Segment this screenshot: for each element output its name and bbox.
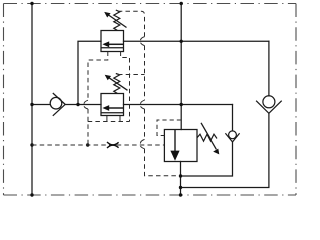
wire: drop into check valve C3 (232, 105, 234, 131)
pilot line: vertical run between hops (144, 46, 146, 101)
wire: tank link to check valve C2 branch (181, 113, 269, 187)
hop: pilot line crosses orifice pilot line (140, 139, 144, 143)
V3 internal flow arrow (down) (170, 130, 179, 161)
wire: left supply vertical line P (31, 4, 33, 196)
V3 pilot chamber (dashed box top-left) (157, 120, 181, 136)
wire: V2 outlet to main vertical (124, 104, 233, 106)
V1 spring (114, 10, 120, 31)
drain line: left drain lower run (87, 109, 89, 145)
main pilot line with orifice to V3 (32, 144, 164, 146)
wire: V3 outlet down to bottom border (180, 162, 182, 196)
wire: left line into check valve C1 (32, 104, 50, 106)
hop: drain line crosses main flow wire (84, 100, 88, 104)
hop: pilot line crosses main flow wire (141, 100, 145, 104)
check valve C3 (small, above tank line) (225, 131, 239, 142)
wire: C3 outlet down and left to tank line (181, 142, 233, 176)
V3 adjustment arrow (201, 123, 219, 155)
wire: main vertical line to relief poppet V3 (180, 4, 182, 130)
V2 spring (114, 74, 120, 94)
V1 internal flow arrow (102, 41, 123, 47)
wire: C1 seat to valve V2 inlet (65, 104, 101, 106)
main relief poppet valve V3 body (164, 130, 197, 162)
check valve C1 (left, horizontal) (50, 93, 65, 116)
check valve C2 (right, vertical large) (256, 96, 282, 114)
hop: pilot line crosses V1 outlet wire (141, 37, 145, 41)
pilot line: V2 spring pilot joins (118, 74, 145, 76)
V2 drain stubs (107, 116, 120, 122)
wire: V1 outlet to right (124, 40, 269, 42)
V1 adjustment arrow (104, 12, 126, 28)
node: junction dots (30, 2, 183, 197)
pilot relief valve V1 body (101, 31, 124, 52)
pilot line: V1 spring remote pilot, top run (118, 11, 145, 36)
drain line: V1 right drain stub path (121, 52, 130, 122)
wire: branch up-left to valve V1 inlet (78, 41, 101, 104)
V2 adjustment arrow (105, 75, 128, 91)
V2 internal flow arrow (102, 105, 123, 111)
drain header under V2 (88, 121, 130, 123)
enclosure boundary (dash-dot frame) (4, 4, 297, 196)
pilot relief valve V2 body (101, 94, 124, 116)
drain line: V1 left drain stub path (88, 52, 108, 101)
wire: right drop to check valve C2 (268, 41, 270, 96)
orifice (restriction) on pilot line (107, 142, 119, 148)
V3 spring (right side) (197, 134, 217, 141)
pilot line: bottom run to tank node (145, 149, 179, 176)
pilot line: vertical run below main line (144, 109, 146, 139)
